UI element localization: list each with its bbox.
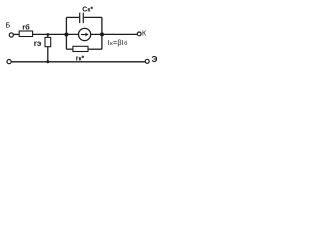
svg-text:rб: rб xyxy=(22,22,30,31)
svg-text:Б: Б xyxy=(6,21,11,30)
svg-text:Ск*: Ск* xyxy=(82,6,93,13)
svg-text:Iк=βIб: Iк=βIб xyxy=(108,40,128,47)
svg-text:Э: Э xyxy=(152,54,158,64)
svg-text:rк*: rк* xyxy=(76,55,85,62)
svg-text:rэ: rэ xyxy=(34,39,42,48)
